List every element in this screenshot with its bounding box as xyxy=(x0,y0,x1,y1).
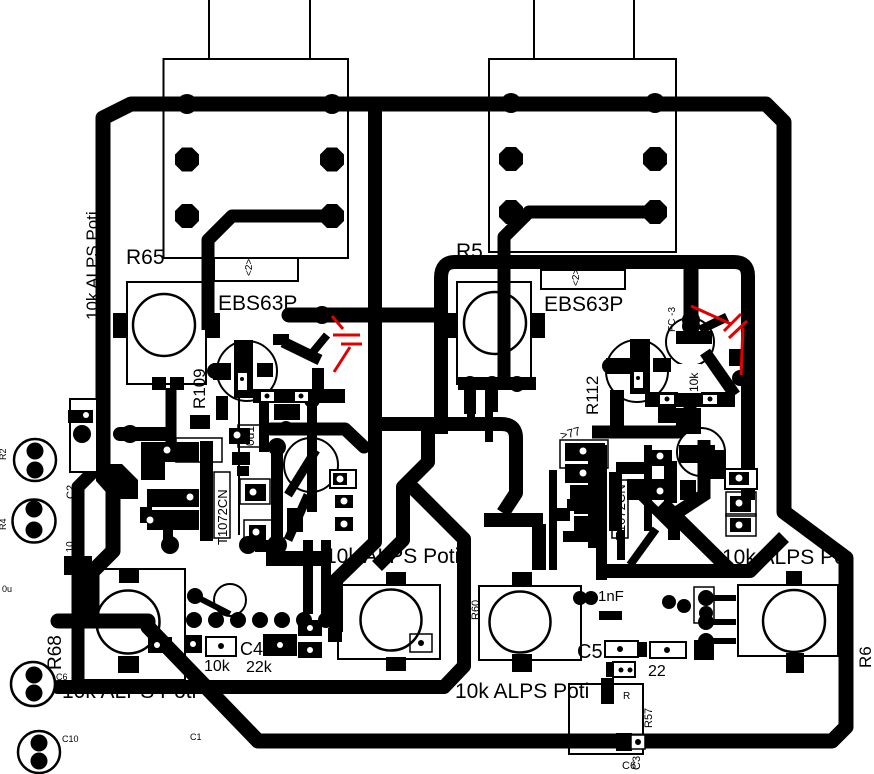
svg-text:T1072CN: T1072CN xyxy=(613,484,628,540)
svg-text:C2: C2 xyxy=(65,485,77,499)
svg-text:R5: R5 xyxy=(456,240,483,263)
svg-text:<2>: <2> xyxy=(244,259,255,276)
svg-text:R109: R109 xyxy=(190,368,209,409)
svg-text:10k ALPS Poti: 10k ALPS Poti xyxy=(455,680,589,703)
svg-text:C10: C10 xyxy=(62,734,79,744)
svg-text:22k: 22k xyxy=(246,659,273,676)
svg-text:1nF: 1nF xyxy=(598,588,624,605)
svg-text:R60: R60 xyxy=(470,600,482,620)
svg-text:10k ALPS Po: 10k ALPS Po xyxy=(722,546,846,569)
svg-text:C3: C3 xyxy=(631,756,643,770)
svg-text:R: R xyxy=(623,691,630,702)
svg-text:10k: 10k xyxy=(204,658,231,675)
svg-text:0u: 0u xyxy=(2,584,12,594)
svg-text:L10: L10 xyxy=(65,541,76,558)
svg-text:FC -3: FC -3 xyxy=(667,307,678,332)
svg-text:R57: R57 xyxy=(643,708,655,728)
svg-text:C1: C1 xyxy=(190,732,202,742)
svg-text:R2: R2 xyxy=(0,448,8,460)
svg-text:R4: R4 xyxy=(0,518,8,530)
svg-text:R65: R65 xyxy=(126,246,165,269)
svg-text:0u1: 0u1 xyxy=(243,426,257,446)
svg-text:T1072CN: T1072CN xyxy=(215,489,230,545)
svg-text:C5: C5 xyxy=(577,641,603,663)
svg-text:10k ALPS Poti: 10k ALPS Poti xyxy=(325,545,459,568)
svg-text:R6: R6 xyxy=(856,646,874,668)
svg-text:22: 22 xyxy=(648,663,666,680)
svg-text:EBS63P: EBS63P xyxy=(218,292,297,315)
svg-text:<2>: <2> xyxy=(571,269,582,286)
svg-text:R68: R68 xyxy=(45,635,66,670)
svg-text:C43: C43 xyxy=(106,477,137,496)
svg-text:10k ALPS Poti: 10k ALPS Poti xyxy=(62,680,196,703)
svg-text:C43: C43 xyxy=(240,639,273,659)
svg-text:10k: 10k xyxy=(687,372,701,392)
svg-text:R112: R112 xyxy=(583,376,602,415)
svg-text:EBS63P: EBS63P xyxy=(544,293,623,316)
